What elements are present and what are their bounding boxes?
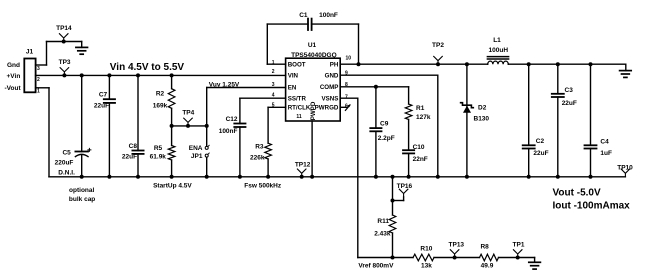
- svg-text:220uF: 220uF: [55, 160, 74, 167]
- wire VSNS down: [357, 98, 359, 257]
- wire Gnd pin up: [46, 42, 48, 66]
- svg-text:R11: R11: [377, 218, 389, 225]
- wire ground stub bottom-right: [534, 258, 536, 263]
- wire C10 bottom: [408, 153, 410, 176]
- svg-text:TP10: TP10: [617, 164, 633, 171]
- svg-text:C9: C9: [380, 121, 389, 128]
- wire GND down: [437, 75, 439, 177]
- junction dot COMP C9: [374, 85, 378, 89]
- svg-text:TP13: TP13: [449, 241, 465, 248]
- test point TP10: [621, 169, 630, 177]
- svg-text:BOOT: BOOT: [288, 62, 306, 69]
- wire EN to pin3: [207, 87, 286, 89]
- wire R10 to R8: [434, 257, 480, 259]
- junction dot C4 bottom: [589, 175, 593, 179]
- wire R8 to ground: [499, 257, 535, 259]
- svg-text:100nF: 100nF: [319, 12, 338, 19]
- wire JP1 top stub: [206, 126, 208, 146]
- svg-text:L1: L1: [493, 37, 501, 44]
- svg-text:TP3: TP3: [59, 59, 71, 66]
- wire PWRGD stub: [340, 106, 347, 108]
- svg-text:100uH: 100uH: [489, 47, 509, 54]
- wire JP1 bottom: [206, 157, 208, 177]
- test point TP16: [393, 200, 404, 202]
- capacitor C5: [81, 75, 83, 151]
- svg-text:100nF: 100nF: [219, 128, 238, 135]
- wire ground stub top-right: [625, 64, 627, 70]
- resistor R1: [405, 104, 412, 120]
- svg-text:TP1: TP1: [513, 241, 525, 248]
- svg-text:TPS54040DGQ: TPS54040DGQ: [291, 52, 337, 59]
- svg-text:TP12: TP12: [295, 162, 311, 169]
- wire R5 top: [171, 126, 173, 146]
- resistor R8: [480, 254, 499, 261]
- svg-text:Vin 4.5V to 5.5V: Vin 4.5V to 5.5V: [110, 62, 185, 73]
- junction dot TP12: [300, 175, 304, 179]
- wire R1 top: [408, 87, 410, 104]
- junction dot JP1 bottom: [205, 175, 209, 179]
- svg-text:5: 5: [272, 102, 275, 108]
- wire feedback to R10: [358, 257, 413, 259]
- svg-text:R1: R1: [416, 105, 425, 112]
- junction dot R11 feedback: [391, 256, 395, 260]
- svg-text:169k: 169k: [153, 102, 168, 109]
- wire PH rail left: [340, 63, 488, 65]
- svg-text:4: 4: [272, 92, 275, 98]
- svg-text:C10: C10: [413, 144, 425, 151]
- junction dot D2 bottom: [465, 175, 469, 179]
- capacitor C8: [137, 75, 139, 150]
- capacitor C9: [375, 87, 377, 128]
- junction dot C3 bottom: [556, 175, 560, 179]
- diode D2: [466, 64, 468, 177]
- junction dot C7 top: [107, 73, 111, 77]
- junction dot C8 bottom: [136, 175, 140, 179]
- wire R2 bottom to TP4 node: [171, 108, 173, 126]
- svg-text:49.9: 49.9: [481, 262, 494, 269]
- wire BOOT pin: [267, 63, 285, 65]
- junction dot R2 top: [170, 73, 174, 77]
- resistor R5: [168, 146, 175, 161]
- wire Vin bus: [36, 74, 286, 76]
- resistor R3: [265, 143, 272, 159]
- svg-text:7: 7: [345, 94, 348, 100]
- svg-text:C2: C2: [536, 138, 545, 145]
- svg-text:2: 2: [37, 77, 40, 83]
- svg-text:PH: PH: [330, 62, 339, 69]
- svg-text:R10: R10: [420, 246, 432, 253]
- svg-text:Iout -100mAmax: Iout -100mAmax: [553, 200, 631, 211]
- wire EN vertical: [206, 88, 208, 126]
- svg-text:GND: GND: [325, 73, 339, 80]
- test point TP4: [184, 118, 193, 126]
- svg-text:TP16: TP16: [397, 183, 413, 190]
- svg-text:226k: 226k: [250, 154, 265, 161]
- capacitor C1: [307, 19, 309, 30]
- capacitor C12: [234, 123, 245, 125]
- svg-text:R2: R2: [156, 91, 165, 98]
- wire R2 top: [171, 75, 173, 88]
- wire RTCLK to R3: [268, 106, 286, 108]
- svg-text:Vuv 1.25V: Vuv 1.25V: [209, 81, 240, 88]
- wire C1 top right: [312, 23, 359, 25]
- svg-text:22uF: 22uF: [533, 150, 548, 157]
- svg-text:R3: R3: [255, 144, 264, 151]
- capacitor C2: [528, 64, 530, 145]
- junction dot C7 bottom: [107, 175, 111, 179]
- svg-text:3: 3: [272, 82, 275, 88]
- wire R5 bottom: [171, 160, 173, 177]
- svg-text:3: 3: [37, 66, 40, 72]
- svg-text:U1: U1: [308, 42, 317, 49]
- wire R3 bottom: [267, 159, 269, 177]
- svg-text:EN: EN: [288, 85, 297, 92]
- svg-text:TP14: TP14: [56, 25, 72, 32]
- jumper JP1 pin ENA: [205, 146, 208, 149]
- wire GND pin right: [340, 74, 438, 76]
- junction dot C2 top: [527, 62, 531, 66]
- junction dot C12 bottom: [238, 175, 242, 179]
- wire SSTR to C12: [240, 97, 286, 99]
- svg-text:D2: D2: [478, 105, 487, 112]
- svg-text:127k: 127k: [416, 114, 431, 121]
- svg-text:61.9k: 61.9k: [150, 153, 167, 160]
- junction dot TP13: [453, 256, 457, 260]
- svg-text:11: 11: [296, 114, 302, 120]
- junction dot PWPD rail: [310, 175, 314, 179]
- svg-text:C8: C8: [129, 143, 138, 150]
- wire R1 to C10: [408, 120, 410, 151]
- junction dot R5 bottom: [170, 175, 174, 179]
- svg-text:2.2pF: 2.2pF: [378, 135, 395, 142]
- svg-text:JP1: JP1: [191, 153, 203, 160]
- svg-text:C4: C4: [600, 138, 609, 145]
- svg-text:1: 1: [272, 60, 275, 66]
- junction dot C1 to PH: [357, 62, 361, 66]
- junction dot EN node left: [170, 124, 174, 128]
- wire J1 pin3 stub: [36, 64, 47, 66]
- svg-text:PWRGD: PWRGD: [315, 105, 339, 112]
- junction dot C4 top: [589, 62, 593, 66]
- capacitor C10: [403, 149, 414, 151]
- test point TP2: [434, 56, 443, 64]
- wire COMP right: [340, 86, 408, 88]
- svg-text:1: 1: [37, 88, 40, 94]
- svg-text:-Vout: -Vout: [5, 85, 22, 92]
- svg-text:TP4: TP4: [182, 110, 194, 117]
- junction dot TP4: [186, 124, 190, 128]
- ground bottom-right: [529, 261, 541, 263]
- svg-text:10: 10: [346, 56, 352, 62]
- svg-text:R8: R8: [480, 243, 489, 250]
- svg-text:2: 2: [272, 69, 275, 75]
- test point TP3: [60, 68, 69, 76]
- svg-text:J1: J1: [26, 49, 34, 56]
- junction dot TP2: [436, 62, 440, 66]
- PWRGD open-pin mark: [345, 105, 350, 111]
- wire TP4 horizontal: [172, 125, 207, 127]
- svg-text:Vref 800mV: Vref 800mV: [358, 262, 394, 269]
- junction dot TP16 node: [391, 199, 395, 203]
- svg-text:VIN: VIN: [288, 73, 299, 80]
- svg-text:C3: C3: [565, 87, 574, 94]
- wire C1 left: [266, 24, 268, 64]
- capacitor C7: [108, 75, 110, 99]
- svg-text:22uF: 22uF: [94, 102, 109, 109]
- test point TP13: [450, 250, 459, 258]
- junction dot C3 top: [556, 62, 560, 66]
- junction dot GND rail: [436, 175, 440, 179]
- wire -Vout down: [48, 88, 50, 177]
- ground top-left: [76, 46, 88, 48]
- op-amp U1 body: [286, 58, 341, 121]
- svg-text:RT/CLK: RT/CLK: [288, 105, 311, 112]
- svg-text:R5: R5: [154, 145, 163, 152]
- test point TP14: [59, 34, 68, 42]
- test point TP1: [513, 250, 522, 258]
- junction dot TP14: [62, 40, 66, 44]
- svg-text:C12: C12: [226, 116, 238, 123]
- svg-text:C7: C7: [99, 91, 108, 98]
- junction dot TP1: [516, 256, 520, 260]
- svg-text:TP2: TP2: [432, 42, 444, 49]
- svg-text:Fsw 500kHz: Fsw 500kHz: [244, 183, 282, 190]
- wire R11 top: [392, 177, 394, 215]
- wire ground stub top-left: [81, 42, 83, 48]
- wire TP14 horizontal: [47, 41, 82, 43]
- svg-text:B130: B130: [474, 115, 490, 122]
- svg-text:optional: optional: [69, 187, 94, 194]
- svg-text:StartUp 4.5V: StartUp 4.5V: [153, 182, 192, 189]
- wire output rail right: [508, 63, 626, 65]
- svg-text:C1: C1: [299, 12, 308, 19]
- svg-text:Gnd: Gnd: [7, 62, 20, 69]
- wire R11 bottom: [392, 233, 394, 258]
- junction dot C5 bottom: [80, 175, 84, 179]
- svg-text:22uF: 22uF: [562, 100, 577, 107]
- svg-text:C5: C5: [62, 149, 71, 156]
- capacitor C3: [557, 64, 559, 94]
- svg-text:SS/TR: SS/TR: [288, 96, 307, 103]
- junction dot R11 top: [391, 175, 395, 179]
- svg-text:1uF: 1uF: [600, 150, 612, 157]
- junction dot D2 top: [465, 62, 469, 66]
- inductor L1: [488, 61, 509, 64]
- svg-text:PWPD: PWPD: [310, 101, 317, 120]
- junction dot C2 bottom: [527, 175, 531, 179]
- wire C1 right: [358, 24, 360, 64]
- svg-text:ENA: ENA: [189, 145, 203, 152]
- wire VSNS right: [340, 97, 358, 99]
- connector J1: [24, 59, 35, 93]
- resistor R10: [413, 254, 434, 261]
- svg-text:22nF: 22nF: [413, 156, 428, 163]
- jumper JP1 pin 2: [205, 154, 208, 157]
- svg-text:COMP: COMP: [320, 84, 339, 91]
- svg-text:13k: 13k: [421, 262, 432, 269]
- junction dot EN node right: [205, 124, 209, 128]
- junction dot C8 top: [136, 73, 140, 77]
- junction dot R3 bottom: [266, 175, 270, 179]
- wire J1 pin1 stub: [36, 87, 49, 89]
- resistor R2: [168, 89, 175, 109]
- test point TP12: [297, 169, 306, 177]
- svg-text:2.43k: 2.43k: [374, 230, 391, 237]
- junction dot C9 bottom: [374, 175, 378, 179]
- junction dot TP3: [62, 73, 66, 77]
- junction dot C5 top: [80, 73, 84, 77]
- svg-text:Vout -5.0V: Vout -5.0V: [553, 188, 601, 199]
- junction dot C10 bottom: [407, 175, 411, 179]
- wire C12 bottom: [239, 127, 241, 177]
- resistor R11: [389, 215, 396, 233]
- svg-text:D.N.I.: D.N.I.: [58, 170, 75, 177]
- svg-text:22uF: 22uF: [122, 154, 137, 161]
- svg-text:bulk cap: bulk cap: [69, 196, 95, 203]
- wire C1 top left: [267, 23, 308, 25]
- wire PWPD down: [311, 121, 313, 177]
- capacitor C4: [590, 64, 592, 145]
- ground top-right: [620, 70, 632, 72]
- svg-text:+Vin: +Vin: [7, 73, 21, 80]
- wire bottom rail: [49, 176, 625, 178]
- svg-text:VSNS: VSNS: [322, 96, 339, 103]
